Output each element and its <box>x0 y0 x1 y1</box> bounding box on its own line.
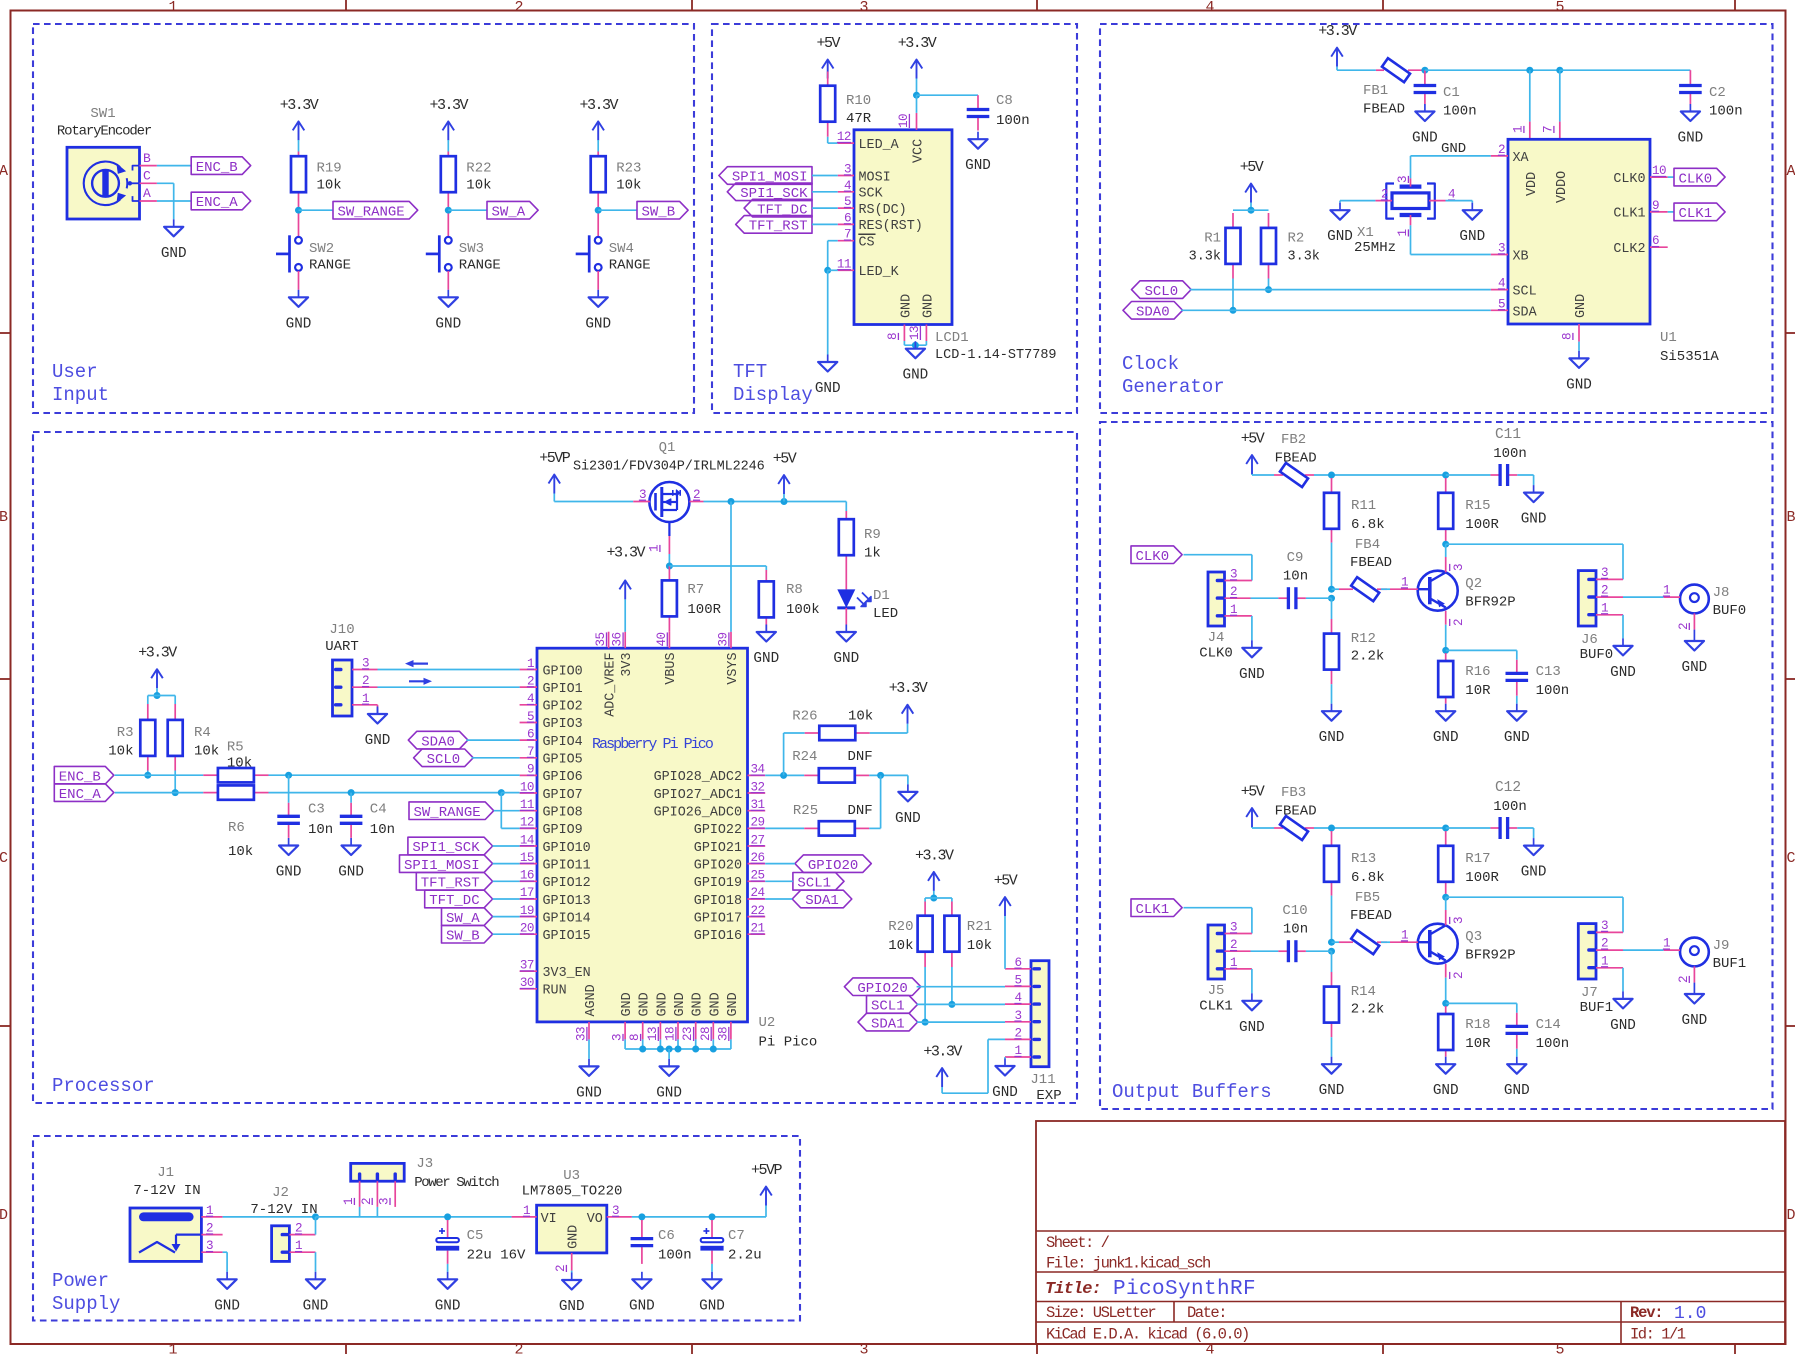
hierarchical label SCL0 <box>1132 281 1192 300</box>
svg-text:GND: GND <box>567 1225 582 1249</box>
label C7 2.2u <box>728 1228 762 1264</box>
svg-text:C11: C11 <box>1495 427 1521 443</box>
power +3.3V at R26 <box>889 680 928 724</box>
U2 pin 21 GPIO16 <box>694 922 765 945</box>
svg-text:A: A <box>1786 163 1795 180</box>
svg-text:GPIO2: GPIO2 <box>543 700 583 715</box>
connector J10 UART body <box>333 660 353 716</box>
ground below C7 <box>699 1272 725 1315</box>
label R16 10R <box>1465 664 1491 699</box>
label X1 25MHz <box>1354 225 1396 256</box>
wire crystal pin 4 to ground <box>1446 201 1473 203</box>
U1 pin 6 CLK2 stub <box>1650 234 1668 248</box>
svg-text:10R: 10R <box>1465 683 1491 699</box>
wire SCL0 to U1 SCL <box>1190 289 1491 291</box>
ground below U1 <box>1566 351 1592 394</box>
svg-text:GND: GND <box>655 992 670 1016</box>
svg-text:GPIO13: GPIO13 <box>543 894 591 909</box>
svg-text:R25: R25 <box>793 803 818 819</box>
junction rail / +5V <box>781 498 788 505</box>
svg-text:GND: GND <box>585 316 611 332</box>
svg-text:25MHz: 25MHz <box>1354 240 1396 256</box>
junction R4 / ENC_A <box>172 789 179 796</box>
svg-text:1k: 1k <box>864 546 881 562</box>
svg-text:SDA1: SDA1 <box>805 893 839 909</box>
wire +3.3V down <box>156 688 158 695</box>
svg-text:100R: 100R <box>1465 517 1499 533</box>
svg-text:GND: GND <box>691 992 706 1016</box>
svg-text:R6: R6 <box>228 820 245 836</box>
wire to GPIO7 pin <box>501 792 519 794</box>
ground below SW2 <box>286 290 312 333</box>
resistor R15 <box>1438 493 1453 529</box>
svg-text:ADC_VREF: ADC_VREF <box>603 653 618 717</box>
J11 pin 1 stub <box>1005 1044 1031 1058</box>
svg-text:10k: 10k <box>194 744 219 760</box>
svg-text:GND: GND <box>656 1085 682 1101</box>
U2 pin 6 GPIO4 <box>520 727 583 750</box>
ground below C3 <box>276 838 302 881</box>
svg-text:2: 2 <box>514 1342 523 1354</box>
J3 pin 2 stub <box>360 1181 378 1207</box>
resistor R19 <box>291 156 306 192</box>
direction arrow RX <box>405 660 428 667</box>
svg-text:LCD-1.14-ST7789: LCD-1.14-ST7789 <box>935 348 1057 363</box>
svg-text:GND: GND <box>365 733 391 749</box>
svg-text:R22: R22 <box>466 161 491 177</box>
label J4 CLK0 <box>1199 630 1233 662</box>
wire rail to C11 <box>1446 474 1491 476</box>
resistor R17 <box>1438 846 1453 882</box>
ground below C14 <box>1504 1057 1530 1100</box>
U2 pin 39 VSYS <box>717 632 741 685</box>
svg-text:VSYS: VSYS <box>726 653 741 685</box>
label D1 LED <box>873 588 898 622</box>
wire U1 GND pin <box>1578 342 1580 351</box>
power +3.3V above R3 R4 <box>138 645 177 689</box>
U2 pin 1 GPIO0 <box>520 657 583 680</box>
svg-text:10n: 10n <box>308 822 333 838</box>
wire +5V down <box>1250 203 1252 211</box>
svg-text:GPIO1: GPIO1 <box>543 682 583 697</box>
capacitor C4 <box>340 816 363 823</box>
pin stubs of collector resistor <box>1445 831 1447 896</box>
resistor R6 <box>218 785 254 799</box>
LCD1 pin 4 SCK <box>838 179 884 202</box>
ground below C8 <box>965 132 991 175</box>
svg-text:GPIO4: GPIO4 <box>543 735 583 750</box>
hierarchical label CLK1 <box>1674 203 1725 222</box>
wire junction to SW_RANGE <box>299 209 334 211</box>
svg-text:2: 2 <box>514 0 523 16</box>
section box Clock Generator <box>1100 24 1773 413</box>
capacitor C1 <box>1414 86 1437 93</box>
svg-text:GND: GND <box>899 294 914 318</box>
switch SW3 <box>426 235 501 273</box>
svg-text:GPIO20: GPIO20 <box>694 858 742 873</box>
svg-text:C7: C7 <box>728 1228 745 1244</box>
label R3 10k <box>108 725 133 760</box>
junction base node / FB4 <box>1328 586 1335 593</box>
svg-text:RANGE: RANGE <box>609 257 651 273</box>
svg-text:File: junk1.kicad_sch: File: junk1.kicad_sch <box>1046 1255 1210 1273</box>
J11 pin 6 stub <box>1005 956 1031 970</box>
net label GND on XA wire <box>1441 141 1466 157</box>
svg-text:3: 3 <box>859 0 868 16</box>
svg-text:BUF1: BUF1 <box>1713 956 1747 972</box>
svg-text:GND: GND <box>620 992 635 1016</box>
wire U2 GND pin drop x=660 <box>659 1039 661 1049</box>
label J1 7-12V IN <box>133 1165 200 1199</box>
svg-text:SDA1: SDA1 <box>871 1016 905 1032</box>
label R15 100R <box>1465 498 1499 533</box>
section title Clock Generator <box>1122 353 1225 398</box>
U1 pin 7 VDDO stub <box>1542 122 1560 140</box>
svg-text:BFR92P: BFR92P <box>1465 948 1515 964</box>
wire GPIO22 to R25 <box>765 827 804 829</box>
svg-text:100n: 100n <box>996 113 1030 129</box>
label R12 2.2k <box>1351 631 1385 665</box>
wire J6 pin 1 to ground <box>1622 615 1624 639</box>
label U3 LM7805_TO220 <box>522 1168 623 1200</box>
junction GND bus <box>692 1046 699 1053</box>
capacitor C11 <box>1500 464 1508 486</box>
J6 pin 3 stub <box>1596 566 1623 580</box>
hierarchical label SPI1_SCK <box>408 837 493 856</box>
wire junction up to R26 <box>784 733 805 775</box>
svg-text:Display: Display <box>733 384 813 406</box>
U2 pin 12 GPIO9 <box>520 816 583 839</box>
pin stubs of C7 <box>711 1220 713 1264</box>
svg-text:GND: GND <box>1319 1083 1345 1099</box>
svg-text:GND: GND <box>214 1298 240 1314</box>
resistor R5 <box>218 768 254 782</box>
wire junction to C8 <box>917 94 979 96</box>
label J9 BUF1 <box>1713 938 1747 972</box>
svg-text:D: D <box>0 1207 8 1224</box>
svg-text:VI: VI <box>541 1212 557 1227</box>
hierarchical label TFT_DC <box>425 890 493 909</box>
label U2 Pi Pico <box>759 1015 818 1051</box>
U2 pin 3 GND <box>611 992 636 1041</box>
capacitor C10 <box>1288 940 1296 962</box>
hierarchical label GPIO20 <box>844 978 920 997</box>
ferrite bead FB3 <box>1280 816 1308 840</box>
svg-text:GND: GND <box>1682 660 1708 676</box>
svg-text:GPIO16: GPIO16 <box>694 929 742 944</box>
wire +3.3V to R23 <box>597 140 599 152</box>
hierarchical label CLK0 <box>1674 168 1725 187</box>
connector J2 body <box>272 1226 290 1262</box>
svg-text:7-12V IN: 7-12V IN <box>133 1183 200 1199</box>
hierarchical label SW_RANGE <box>333 201 418 220</box>
U2 pin 17 GPIO13 <box>520 886 591 909</box>
wire R25 to R24 output node <box>869 775 880 828</box>
ground below J5 <box>1239 993 1265 1036</box>
svg-text:SCL0: SCL0 <box>427 752 461 768</box>
svg-text:C6: C6 <box>658 1228 675 1244</box>
svg-text:3V3_EN: 3V3_EN <box>543 966 591 981</box>
svg-text:7-12V IN: 7-12V IN <box>250 1202 317 1218</box>
U2 pin 8 GND <box>628 992 653 1041</box>
pin stubs of C14 <box>1516 1013 1518 1049</box>
svg-text:PicoSynthRF: PicoSynthRF <box>1113 1278 1256 1301</box>
ground below J8 <box>1682 634 1708 677</box>
svg-text:GND: GND <box>435 1298 461 1314</box>
svg-text:R5: R5 <box>227 740 244 756</box>
svg-text:Supply: Supply <box>52 1293 120 1315</box>
wire base node to R14 <box>1331 951 1333 972</box>
U2 pin 19 GPIO14 <box>520 904 591 927</box>
label C8 100n <box>996 93 1030 129</box>
J11 pin 4 stub <box>1005 991 1031 1005</box>
title block title PicoSynthRF <box>1045 1278 1256 1301</box>
U2 pin 40 VBUS <box>655 632 679 685</box>
junction GND bus <box>675 1046 682 1053</box>
svg-text:User: User <box>52 361 98 383</box>
wire U2 GND pin drop x=713 <box>712 1039 714 1049</box>
svg-text:CLK0: CLK0 <box>1199 646 1233 662</box>
svg-text:U1: U1 <box>1660 330 1677 346</box>
resistor R14 <box>1324 987 1339 1023</box>
junction VO / C6 <box>638 1213 645 1220</box>
svg-text:22u 16V: 22u 16V <box>467 1248 526 1264</box>
wire ENC_B to R5 <box>115 774 204 776</box>
U1 right pin names <box>1613 172 1645 257</box>
hierarchical label GPIO20 at U2 <box>795 855 871 874</box>
svg-text:GND: GND <box>559 1299 585 1315</box>
wire crystal pin 2 to ground <box>1340 201 1375 203</box>
svg-text:2.2k: 2.2k <box>1351 649 1385 665</box>
wire J11 pin 2 to +3.3V <box>942 1039 988 1093</box>
U2 pin 14 GPIO10 <box>520 833 591 856</box>
svg-text:Pi Pico: Pi Pico <box>759 1035 818 1051</box>
title block frame <box>1036 1121 1785 1344</box>
hierarchical label ENC_B <box>54 766 114 785</box>
svg-text:FBEAD: FBEAD <box>1363 102 1405 118</box>
svg-text:GND: GND <box>753 651 779 667</box>
pin stubs of C6 <box>641 1220 643 1264</box>
U1 top/bottom pin names <box>1525 171 1589 318</box>
svg-text:J9: J9 <box>1713 938 1730 954</box>
wire C12 to ground <box>1517 828 1533 838</box>
svg-text:LED: LED <box>873 606 898 622</box>
svg-text:ENC_A: ENC_A <box>59 787 102 803</box>
pin stubs of FB3 <box>1274 827 1314 829</box>
U1 pin 10 CLK0 stub <box>1650 164 1668 178</box>
junction R22 / SW3 <box>445 207 452 214</box>
svg-text:+3.3V: +3.3V <box>915 847 954 864</box>
power +3.3V above R23 <box>579 97 618 140</box>
svg-text:CLK1: CLK1 <box>1199 999 1233 1015</box>
connector J7 body <box>1578 924 1596 979</box>
wire Q1 drain down <box>668 554 670 566</box>
wire J7 pin 2 to J9 <box>1623 949 1664 951</box>
svg-text:GND: GND <box>965 158 991 174</box>
J5 pin 3 stub <box>1225 921 1252 935</box>
resistor R3 <box>140 720 155 756</box>
svg-text:C3: C3 <box>308 802 325 818</box>
svg-text:EXP: EXP <box>1036 1088 1061 1104</box>
svg-text:RANGE: RANGE <box>459 257 501 273</box>
ground below C5 <box>435 1272 461 1315</box>
svg-text:+3.3V: +3.3V <box>579 97 618 114</box>
rotary encoder SW1 <box>57 106 157 219</box>
section box User Input <box>33 24 694 413</box>
junction J1 / J2 <box>312 1213 319 1220</box>
ground below LCD1 <box>903 341 929 384</box>
LCD1 pin 3 MOSI <box>838 163 891 186</box>
svg-text:GND: GND <box>338 865 364 881</box>
svg-text:3.3k: 3.3k <box>1288 250 1320 265</box>
ground below SW4 <box>585 290 611 333</box>
ground below J4 <box>1239 640 1265 683</box>
svg-text:CLK0: CLK0 <box>1135 549 1169 565</box>
U2 pin 28 GND <box>699 992 724 1041</box>
svg-text:C9: C9 <box>1287 550 1304 566</box>
svg-text:SW_B: SW_B <box>446 929 480 945</box>
U2 pin 24 GPIO18 <box>694 886 765 909</box>
wire base node to FB5 <box>1332 941 1340 943</box>
svg-text:GND: GND <box>673 992 688 1016</box>
svg-text:Power Switch: Power Switch <box>414 1175 499 1191</box>
label Q2 BFR92P <box>1465 576 1515 611</box>
wire +3.3V down <box>933 891 935 898</box>
wire J4 pin 2 to C9 <box>1251 597 1279 599</box>
hierarchical label CLK0 <box>1131 546 1182 565</box>
svg-text:SCK: SCK <box>859 187 884 202</box>
svg-text:SDA0: SDA0 <box>1136 305 1170 321</box>
svg-text:R13: R13 <box>1351 851 1376 867</box>
label R8 100k <box>786 582 820 618</box>
label J6 BUF0 <box>1580 632 1614 663</box>
svg-text:RANGE: RANGE <box>309 257 351 273</box>
svg-text:J11: J11 <box>1030 1072 1055 1088</box>
wire CLK1 to J5 pin 3 <box>1184 908 1252 934</box>
svg-text:J7: J7 <box>1581 985 1598 1001</box>
section title Processor <box>52 1075 155 1097</box>
junction GND bus <box>657 1046 664 1053</box>
connector J6 body <box>1578 571 1596 626</box>
svg-text:GND: GND <box>815 381 841 397</box>
capacitor C5 <box>436 1228 459 1251</box>
wire emitter to C14 <box>1446 1003 1517 1012</box>
label J5 CLK1 <box>1199 983 1233 1015</box>
hierarchical label CLK1 <box>1131 899 1182 918</box>
svg-text:SCL1: SCL1 <box>797 876 831 892</box>
svg-text:GPIO20: GPIO20 <box>857 981 907 997</box>
svg-text:10k: 10k <box>317 178 342 194</box>
svg-text:GPIO9: GPIO9 <box>543 823 583 838</box>
title block size/date/rev <box>1046 1304 1706 1324</box>
U2 pin 29 GPIO22 <box>694 816 765 839</box>
hierarchical label SPI1_MOSI <box>719 167 812 186</box>
svg-text:Input: Input <box>52 384 109 406</box>
wire to R3 <box>147 696 149 705</box>
svg-text:R4: R4 <box>194 725 211 741</box>
ground below J9 <box>1682 987 1708 1030</box>
resistor R26 <box>819 726 855 740</box>
label J2 7-12V IN <box>250 1185 317 1218</box>
resistor R9 <box>839 519 854 555</box>
hierarchical label SPI1_MOSI <box>400 855 493 874</box>
svg-text:GND: GND <box>1441 141 1466 157</box>
ground below LED_K <box>815 355 841 398</box>
wire C10 to base node <box>1306 950 1332 952</box>
wire J11 pin 2 <box>988 1038 1005 1040</box>
svg-text:KiCad E.D.A. kicad (6.0.0): KiCad E.D.A. kicad (6.0.0) <box>1046 1326 1249 1344</box>
wire J5 pin 2 to C10 <box>1251 950 1279 952</box>
label R19 10k <box>317 161 342 194</box>
pin stub junction to SW4 <box>597 214 599 237</box>
wire XA to crystal pin 3 <box>1411 156 1491 179</box>
capacitor C3 <box>277 816 300 823</box>
svg-text:C: C <box>0 850 8 867</box>
label Q1 Si2301/FDV304P/IRLML2246 <box>573 440 765 475</box>
wire ENC_A branch to GPIO9 <box>501 793 519 829</box>
wire rail to R9 <box>845 502 847 512</box>
svg-text:VCC: VCC <box>912 139 927 163</box>
J4 pin 1 stub <box>1225 603 1252 617</box>
svg-text:UART: UART <box>325 639 359 655</box>
svg-text:1: 1 <box>168 1342 177 1354</box>
wire rail to C2 <box>1560 69 1691 71</box>
U2 pin 10 GPIO7 <box>520 780 583 803</box>
label C4 10n <box>370 802 395 839</box>
hierarchical label SCL0 <box>414 749 474 768</box>
wire junction to R8 <box>669 566 766 570</box>
wire R11 to base node <box>1331 543 1333 590</box>
resistor R22 <box>441 156 456 192</box>
svg-text:ENC_B: ENC_B <box>196 160 238 176</box>
wire emitter to C13 <box>1446 650 1517 659</box>
wire junction to SW_B <box>598 209 637 211</box>
wire SDA1 to J11 pin 3 <box>917 1021 1005 1023</box>
svg-text:SW_RANGE: SW_RANGE <box>413 805 480 821</box>
svg-text:XA: XA <box>1513 151 1530 166</box>
pin stubs of R11 <box>1331 478 1333 543</box>
svg-text:4: 4 <box>1205 0 1214 16</box>
capacitor C8 <box>967 110 990 117</box>
svg-text:J4: J4 <box>1208 630 1225 646</box>
svg-text:CLK1: CLK1 <box>1613 207 1645 222</box>
wire U2 GND pin drop x=625 <box>624 1039 626 1049</box>
svg-text:GPIO11: GPIO11 <box>543 858 591 873</box>
processor IC U2 Raspberry Pi Pico body <box>537 648 748 1022</box>
capacitor C7 <box>700 1228 723 1251</box>
LCD1 pin 12 LED_A <box>837 130 900 153</box>
junction collector node <box>1442 541 1449 548</box>
wire SPI1_SCK to LCD1 <box>812 191 838 193</box>
label R23 10k <box>616 161 641 194</box>
svg-text:FB1: FB1 <box>1363 83 1388 99</box>
svg-text:GND: GND <box>833 651 859 667</box>
wire J11 pin 1 to ground <box>1004 1057 1006 1058</box>
svg-text:Si5351A: Si5351A <box>1660 349 1719 365</box>
junction R21 / SCL1 <box>948 1001 955 1008</box>
hierarchical label ENC_B <box>191 157 251 176</box>
pin stubs of R24 <box>804 774 869 776</box>
svg-text:Power: Power <box>52 1270 109 1292</box>
resistor R24 <box>819 768 855 782</box>
label R21 10k <box>967 919 992 954</box>
junction rail / VDD <box>1526 67 1533 74</box>
pin stubs of C9 <box>1278 597 1306 599</box>
hierarchical label SCL1 <box>867 996 918 1015</box>
svg-text:GND: GND <box>1566 377 1592 393</box>
svg-text:SW2: SW2 <box>309 241 334 257</box>
label R6 10k <box>228 820 253 860</box>
